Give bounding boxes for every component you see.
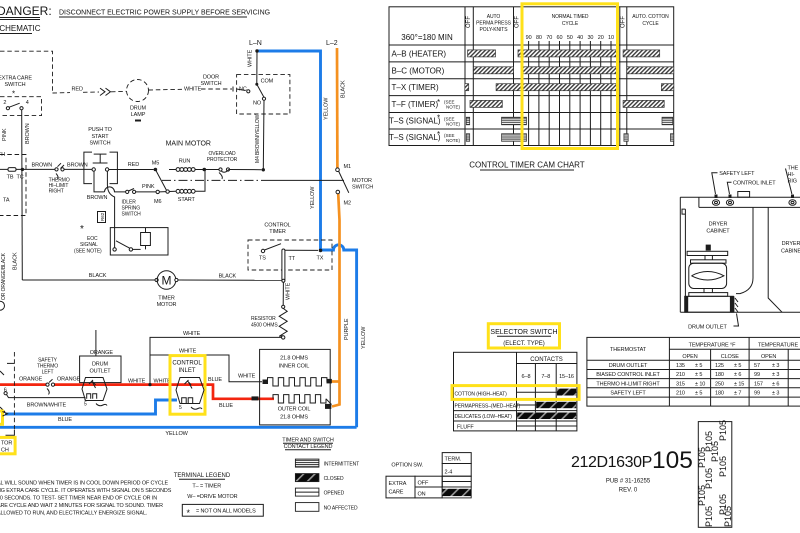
svg-text:P105: P105: [704, 506, 714, 527]
arrow blue terminal: [3, 412, 8, 417]
svg-text:NORMAL TIMED: NORMAL TIMED: [552, 14, 589, 20]
svg-text:YELLOW: YELLOW: [361, 326, 367, 349]
wire white branch to inner coil: [150, 355, 262, 382]
svg-text:T–S (SIGNAL): T–S (SIGNAL): [389, 133, 441, 142]
terminal mark on red: [252, 396, 259, 400]
resistor 4500 ohms: [251, 305, 287, 339]
svg-text:NO AFFECTED: NO AFFECTED: [324, 506, 358, 512]
cam chart bars row B-C: [474, 67, 674, 74]
svg-text:OFF: OFF: [418, 481, 429, 487]
svg-text:TH: TH: [0, 152, 5, 158]
svg-text:OFF: OFF: [515, 16, 521, 28]
drum outlet thermostat symbol: [82, 378, 107, 408]
overload protector: [206, 151, 262, 179]
svg-text:± 15: ± 15: [734, 381, 744, 387]
wire orange inner coil stub: [332, 380, 340, 383]
svg-text:M1: M1: [344, 164, 351, 170]
part number: [571, 447, 693, 494]
P105 vertical sticker box: [697, 420, 733, 527]
svg-text:99: 99: [754, 391, 760, 397]
wire blue long bottom (labeled yellow): [0, 426, 357, 429]
svg-text:YELLOW: YELLOW: [310, 186, 316, 209]
svg-text:NO: NO: [253, 101, 262, 107]
svg-text:± 7: ± 7: [734, 391, 741, 397]
svg-text:START: START: [178, 197, 196, 203]
svg-text:OUTLET: OUTLET: [89, 369, 111, 375]
wire pink idler to M6: [136, 191, 156, 193]
wire orange L-2 drop: [336, 48, 339, 168]
timer motor: [155, 271, 178, 308]
svg-text:M2: M2: [344, 201, 351, 207]
svg-text:WHITE: WHITE: [183, 331, 201, 337]
svg-text:± 10: ± 10: [695, 381, 705, 387]
wire brown left to thermo: [0, 168, 56, 170]
cam chart table frame: [389, 7, 674, 146]
svg-text:SWITCH: SWITCH: [122, 212, 142, 218]
push to start switch: [84, 127, 118, 184]
wire black from extra care 4 down: [21, 110, 24, 280]
safety thermo left: [37, 358, 58, 395]
svg-text:TX: TX: [317, 256, 324, 262]
title warning text: [59, 10, 270, 18]
svg-text:6: 6: [4, 388, 7, 394]
svg-text:± 5: ± 5: [695, 391, 702, 397]
svg-text:70: 70: [546, 35, 552, 41]
timer and switch contact legend: [282, 438, 359, 512]
mechanical dash-dot line: [162, 179, 267, 181]
svg-text:POLY-KNITS: POLY-KNITS: [480, 27, 509, 33]
svg-text:LEFT: LEFT: [42, 370, 54, 376]
title SCHEMATIC: [0, 24, 41, 34]
svg-text:CLOSE: CLOSE: [721, 354, 740, 360]
svg-text:TT: TT: [289, 256, 296, 262]
svg-text:R62: R62: [100, 212, 105, 221]
wire brown to push start: [64, 168, 92, 170]
svg-text:BROWN: BROWN: [32, 163, 53, 169]
wire red main: [0, 383, 46, 386]
idler spring switch: [122, 189, 142, 218]
svg-text:± 6: ± 6: [734, 372, 741, 378]
svg-text:CARE: CARE: [389, 490, 404, 496]
svg-text:L–2: L–2: [326, 40, 338, 47]
svg-text:TEMPERATURE °F: TEMPERATURE °F: [689, 343, 737, 349]
svg-text:YELLOW: YELLOW: [165, 431, 188, 437]
svg-text:T– = TIMER: T– = TIMER: [192, 484, 221, 490]
wire black to timer motor: [22, 279, 155, 281]
thermo hi-limit right contact: [49, 163, 70, 194]
wire brown/yellow NO to M4: [262, 100, 265, 170]
svg-text:OPTION SW.: OPTION SW.: [391, 463, 423, 469]
terminal lug: [8, 168, 16, 172]
svg-text:CONTACTS: CONTACTS: [530, 357, 563, 363]
svg-text:BLUE: BLUE: [208, 377, 222, 383]
door switch: [200, 75, 289, 115]
node L-N: [255, 49, 258, 52]
cam chart row labels: [389, 50, 461, 143]
control inlet thermostat symbol: [176, 378, 204, 412]
control timer: [248, 223, 332, 282]
caption control timer cam chart: [469, 161, 585, 171]
svg-text:TERMINAL LEGEND: TERMINAL LEGEND: [174, 473, 231, 479]
svg-text:OFF: OFF: [466, 16, 472, 28]
svg-text:MOTOR: MOTOR: [157, 302, 177, 308]
svg-text:AUTO. COTTON: AUTO. COTTON: [632, 14, 669, 20]
svg-text:60: 60: [557, 35, 563, 41]
motor switch M1: [336, 168, 340, 172]
small boxed label R62: [98, 212, 106, 223]
EOC signal module: [74, 224, 168, 255]
svg-text:PERMA PRESS: PERMA PRESS: [476, 21, 512, 27]
node junction: [21, 168, 24, 171]
svg-text:180: 180: [715, 391, 724, 397]
cam chart bars row T-S 1: [466, 117, 672, 125]
svg-text:157: 157: [754, 381, 763, 387]
selector switch table: [452, 324, 579, 431]
svg-text:TOR: TOR: [1, 441, 12, 447]
bolt 3: [789, 195, 796, 206]
svg-text:*: *: [187, 508, 191, 518]
svg-text:NOTE): NOTE): [446, 138, 461, 143]
svg-text:80: 80: [536, 35, 542, 41]
svg-text:*: *: [80, 224, 84, 235]
svg-text:THERMO HI-LIMIT RIGHT: THERMO HI-LIMIT RIGHT: [596, 381, 660, 387]
svg-text:ALLOWED TO RUN, AND ELECTRICAL: ALLOWED TO RUN, AND ELECTRICALLY ENERGIZ…: [0, 511, 147, 517]
wire brown down from push start: [94, 171, 105, 192]
svg-text:5: 5: [84, 402, 87, 408]
svg-text:PINK: PINK: [142, 184, 155, 190]
inner duct wall: [736, 207, 753, 293]
svg-text:105: 105: [652, 447, 693, 474]
svg-text:T–X (TIMER): T–X (TIMER): [392, 83, 439, 92]
svg-text:P105: P105: [697, 447, 707, 468]
svg-text:T–S (SIGNAL): T–S (SIGNAL): [389, 117, 441, 126]
wire from drum outlet box top up: [95, 330, 97, 356]
svg-text:(SEE NOTE): (SEE NOTE): [74, 249, 102, 255]
svg-text:OFF: OFF: [621, 16, 627, 28]
wire red to M5: [109, 169, 154, 171]
svg-text:7–8: 7–8: [541, 374, 550, 380]
svg-text:START: START: [91, 134, 109, 140]
svg-text:99: 99: [754, 372, 760, 378]
svg-text:NOTE): NOTE): [446, 121, 461, 126]
svg-text:± 5: ± 5: [695, 363, 702, 369]
svg-text:315: 315: [676, 381, 685, 387]
svg-text:PURPLE: PURPLE: [344, 318, 350, 340]
node M4: [262, 168, 265, 171]
svg-text:250: 250: [715, 381, 724, 387]
motor switch M2: [336, 190, 340, 194]
svg-text:= NOT ON ALL MODELS: = NOT ON ALL MODELS: [196, 509, 256, 515]
svg-text:CONTROL INLET: CONTROL INLET: [733, 181, 776, 187]
svg-text:P105: P105: [723, 506, 733, 527]
option switch table: [386, 453, 471, 498]
svg-text:40: 40: [577, 35, 583, 41]
svg-text:PERMAPRESS–(MED–HEAT): PERMAPRESS–(MED–HEAT): [455, 404, 521, 410]
cam chart bars row T-X: [465, 84, 674, 91]
svg-text:OPENED: OPENED: [324, 491, 345, 497]
svg-text:*: *: [12, 90, 15, 99]
svg-text:BLACK: BLACK: [13, 252, 19, 270]
svg-text:HI-: HI-: [788, 172, 795, 178]
svg-text:212D1630P: 212D1630P: [571, 454, 652, 471]
svg-text:(ELECT. TYPE): (ELECT. TYPE): [503, 341, 545, 347]
svg-text:CONTROL TIMER CAM CHART: CONTROL TIMER CAM CHART: [469, 161, 585, 170]
svg-text:DRUM OUTLET: DRUM OUTLET: [688, 325, 727, 331]
svg-text:5: 5: [179, 405, 182, 411]
svg-text:W– =DRIVE MOTOR: W– =DRIVE MOTOR: [187, 494, 237, 500]
svg-text:BROWN: BROWN: [67, 163, 88, 169]
svg-text:SAFETY LEFT: SAFETY LEFT: [719, 171, 755, 177]
svg-text:210: 210: [676, 372, 685, 378]
svg-text:4500 OHMS: 4500 OHMS: [251, 323, 278, 329]
svg-text:ON: ON: [418, 492, 426, 498]
cam chart tick columns 90-10: [529, 41, 611, 146]
svg-text:CONTROL: CONTROL: [172, 361, 202, 367]
svg-text:50: 50: [567, 35, 573, 41]
svg-text:BIASED CONTROL INLET: BIASED CONTROL INLET: [596, 372, 660, 378]
svg-text:ARE CYCLE AND WAIT 2 MINUTES F: ARE CYCLE AND WAIT 2 MINUTES FOR SIGNAL …: [0, 503, 163, 509]
svg-text:DELICATES (LOW–HEAT): DELICATES (LOW–HEAT): [455, 414, 513, 420]
svg-text:CABINET: CABINET: [706, 229, 730, 235]
yellow highlight selector label: [0, 437, 15, 453]
svg-text:15–16: 15–16: [559, 374, 574, 380]
svg-text:TIMER: TIMER: [269, 229, 286, 235]
wire down from right contact to EOC: [107, 171, 114, 248]
svg-text:RESISTOR: RESISTOR: [251, 316, 276, 322]
svg-text:T–F (TIMER): T–F (TIMER): [392, 100, 439, 109]
wire orange M2 drop: [332, 194, 340, 407]
drum outlet thermostat box: [80, 356, 121, 383]
svg-text:EXTRA CARE: EXTRA CARE: [0, 76, 32, 82]
svg-text:TEMPERATURE: TEMPERATURE: [758, 343, 798, 349]
svg-text:2: 2: [3, 100, 6, 106]
svg-text:± 6: ± 6: [772, 381, 779, 387]
svg-text:210: 210: [676, 391, 685, 397]
svg-text:OR ORANGE/BLACK: OR ORANGE/BLACK: [1, 252, 7, 300]
thermostat table: [587, 337, 800, 406]
svg-text:EXTRA: EXTRA: [389, 481, 407, 487]
svg-text:CYCLE: CYCLE: [562, 21, 579, 27]
cabinet top panel: [680, 196, 800, 198]
control inlet yellow box: [170, 356, 205, 415]
partial circle left edge: [0, 301, 5, 310]
dryer cabinet drawing: [680, 166, 800, 331]
svg-text:LAMP: LAMP: [131, 112, 146, 118]
svg-text:INTERMITTENT: INTERMITTENT: [324, 462, 360, 468]
svg-text:WHITE: WHITE: [128, 379, 146, 385]
svg-text:180: 180: [715, 372, 724, 378]
svg-text:± 3: ± 3: [772, 391, 779, 397]
svg-text:SELECTOR SWITCH: SELECTOR SWITCH: [490, 329, 557, 336]
svg-text:PUB # 31-16255: PUB # 31-16255: [606, 479, 651, 485]
wire black timer motor to TT: [178, 279, 283, 281]
svg-text:SCHEMATIC: SCHEMATIC: [0, 24, 41, 33]
svg-text:BROWN: BROWN: [87, 195, 108, 201]
note text block bottom left: [0, 481, 172, 517]
blower assembly: [706, 245, 711, 251]
svg-text:BLACK: BLACK: [341, 80, 347, 98]
svg-text:*: *: [437, 98, 440, 107]
svg-text:WHITE: WHITE: [238, 374, 256, 380]
svg-text:NOTE): NOTE): [446, 105, 461, 110]
svg-text:L–N: L–N: [249, 40, 262, 47]
svg-text:90: 90: [526, 35, 532, 41]
svg-text:TS: TS: [259, 256, 266, 262]
selector switch terminal block dashed: [0, 155, 26, 216]
wire blue lower-left branch: [5, 400, 177, 414]
bolt 1: [712, 195, 719, 206]
svg-text:SWITCH: SWITCH: [200, 81, 221, 87]
svg-text:RUN: RUN: [179, 159, 191, 165]
svg-text:2-4: 2-4: [445, 470, 453, 476]
svg-text:WHITE: WHITE: [184, 87, 202, 93]
svg-text:135: 135: [676, 363, 685, 369]
svg-text:BLACK: BLACK: [219, 274, 237, 280]
selector switch dashed edge bottom: [0, 352, 14, 435]
svg-text:M: M: [162, 274, 172, 288]
svg-text:AL WILL SOUND WHEN TIMER IS IN: AL WILL SOUND WHEN TIMER IS IN COOL DOWN…: [0, 481, 169, 487]
heater coil box: [260, 349, 332, 425]
svg-text:OUTER COIL: OUTER COIL: [278, 407, 311, 413]
svg-text:20: 20: [598, 35, 604, 41]
svg-text:DOOR: DOOR: [203, 75, 219, 81]
top protrusion: [738, 192, 750, 198]
svg-text:THE: THE: [788, 166, 799, 172]
hop over vertical: [105, 187, 126, 192]
svg-text:INLET: INLET: [178, 368, 195, 374]
svg-text:COTTON (HIGH–HEAT): COTTON (HIGH–HEAT): [455, 392, 508, 398]
svg-text:BLACK: BLACK: [89, 273, 107, 279]
svg-text:SIGNAL: SIGNAL: [80, 242, 98, 248]
svg-text:B–C (MOTOR): B–C (MOTOR): [392, 66, 445, 75]
title DANGER: [0, 4, 52, 20]
svg-text:DRUM: DRUM: [130, 106, 147, 112]
svg-text:P105: P105: [718, 420, 728, 441]
svg-text:ORANGE: ORANGE: [19, 377, 43, 383]
svg-text:SAFETY LEFT: SAFETY LEFT: [610, 391, 646, 397]
svg-text:CLOSED: CLOSED: [324, 476, 344, 482]
svg-text:57: 57: [754, 363, 760, 369]
svg-text:WHITE: WHITE: [179, 349, 197, 355]
svg-text:DRYER: DRYER: [782, 241, 800, 247]
terminal legend: [174, 473, 264, 518]
svg-text:CH: CH: [1, 448, 9, 454]
svg-text:RED: RED: [128, 162, 139, 168]
main motor: [152, 141, 211, 204]
yellow highlight small left: [0, 411, 3, 424]
svg-text:TB: TB: [7, 175, 14, 181]
svg-text:SWITCH: SWITCH: [352, 184, 373, 190]
svg-text:M6: M6: [154, 199, 161, 205]
extra care switch dashed box: [0, 76, 42, 116]
svg-text:70 SECONDS. TO TEST- SET TIMER: 70 SECONDS. TO TEST- SET TIMER NEAR END …: [0, 496, 157, 502]
svg-text:DISCONNECT ELECTRIC POWER SUPP: DISCONNECT ELECTRIC POWER SUPPLY BEFORE …: [59, 10, 270, 17]
cam chart header texts: [401, 14, 669, 42]
svg-text:PUSH TO: PUSH TO: [88, 127, 112, 133]
svg-text:*: *: [437, 130, 440, 139]
svg-text:OPEN: OPEN: [682, 354, 697, 360]
svg-text:A–B (HEATER): A–B (HEATER): [392, 50, 447, 59]
svg-text:6–8: 6–8: [522, 374, 531, 380]
svg-text:INNER COIL: INNER COIL: [279, 364, 310, 370]
svg-text:BROWN: BROWN: [25, 123, 31, 144]
svg-text:ORANGE: ORANGE: [57, 377, 81, 383]
wire white resistor to junction: [150, 337, 282, 384]
highlight normal timed cycle: [522, 4, 618, 149]
svg-text:BLUE: BLUE: [219, 403, 233, 409]
svg-text:30: 30: [587, 35, 593, 41]
svg-text:M5: M5: [152, 160, 159, 166]
svg-text:CYCLE: CYCLE: [642, 21, 659, 27]
svg-text:WHITE: WHITE: [248, 49, 254, 67]
wire brown/white: [4, 388, 85, 409]
svg-text:DRUM: DRUM: [92, 362, 109, 368]
cam chart bars row T-S 2: [466, 134, 673, 142]
svg-text:SWITCH: SWITCH: [89, 141, 110, 147]
svg-text:THERMOSTAT: THERMOSTAT: [610, 347, 647, 353]
svg-text:BLUE: BLUE: [58, 417, 72, 423]
cam chart bars row A-B: [468, 50, 660, 57]
wire white TT down to resistor: [282, 279, 285, 282]
svg-text:± 5: ± 5: [734, 363, 741, 369]
svg-text:± 3: ± 3: [772, 363, 779, 369]
svg-text:21.8 OHMS: 21.8 OHMS: [280, 356, 308, 362]
svg-text:CONTROL: CONTROL: [264, 223, 290, 229]
svg-text:125: 125: [715, 363, 724, 369]
node white-red junction: [148, 383, 151, 386]
svg-text:21.8 OHMS: 21.8 OHMS: [280, 415, 308, 421]
svg-text:P105: P105: [710, 441, 720, 462]
svg-text:WHITE: WHITE: [286, 282, 292, 300]
svg-text:YELLOW: YELLOW: [324, 97, 330, 120]
control inlet label: [172, 361, 202, 375]
svg-text:PROTECTOR: PROTECTOR: [207, 157, 238, 163]
svg-text:REV. 0: REV. 0: [619, 488, 638, 494]
cam chart bars row T-F: [470, 100, 664, 107]
svg-text:NG EXTRA CARE CYCLE. IT OPERAT: NG EXTRA CARE CYCLE. IT OPERATES WITH SI…: [0, 488, 172, 494]
svg-text:TC: TC: [17, 175, 24, 181]
svg-text:TIMER: TIMER: [158, 296, 175, 302]
svg-text:RED: RED: [72, 87, 83, 93]
svg-text:COM: COM: [261, 79, 274, 85]
svg-text:P105: P105: [697, 485, 707, 506]
svg-text:± 5: ± 5: [695, 372, 702, 378]
svg-text:PINK: PINK: [2, 128, 8, 141]
dashed wire lamp to door switch: [149, 87, 234, 93]
drum lamp: [127, 80, 149, 122]
svg-text:BROWN/WHITE: BROWN/WHITE: [27, 403, 67, 409]
cabinet left wall: [679, 197, 681, 312]
svg-text:SWITCH: SWITCH: [4, 82, 25, 88]
svg-text:M4 BROWN/YELLOW: M4 BROWN/YELLOW: [255, 114, 261, 163]
svg-text:TIMER AND SWITCH: TIMER AND SWITCH: [282, 438, 334, 444]
svg-text:ORANGE: ORANGE: [90, 350, 114, 356]
cabinet bottom: [680, 311, 800, 313]
svg-text:OPEN: OPEN: [761, 354, 776, 360]
svg-text:MOTOR: MOTOR: [352, 178, 372, 184]
svg-text:10: 10: [608, 35, 614, 41]
svg-text:± 3: ± 3: [772, 372, 779, 378]
svg-text:DRUM OUTLET: DRUM OUTLET: [609, 363, 648, 369]
wire white L-N to COM: [256, 51, 258, 84]
svg-text:*: *: [437, 114, 440, 123]
svg-text:DRYER: DRYER: [709, 222, 728, 228]
svg-text:MAIN MOTOR: MAIN MOTOR: [166, 141, 211, 148]
dashed wire from extra care box to drum lamp: [0, 51, 127, 95]
svg-text:CABINE: CABINE: [781, 249, 800, 255]
wire blue L-N main run: [257, 51, 321, 250]
svg-text:360°=180 MIN: 360°=180 MIN: [401, 33, 453, 42]
